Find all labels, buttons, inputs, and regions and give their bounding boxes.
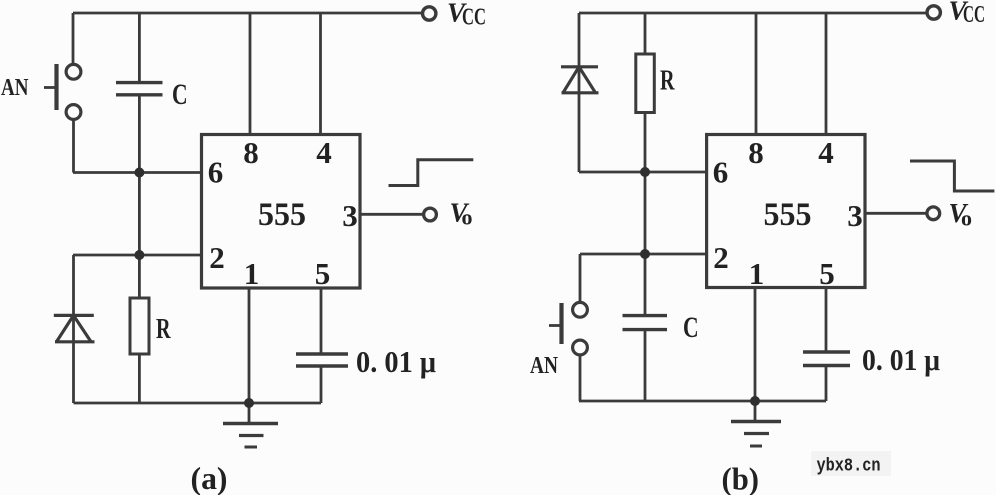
svg-text:(a): (a) [191,460,228,495]
svg-text:o: o [961,206,972,231]
svg-text:2: 2 [209,240,225,275]
svg-text:CC: CC [462,5,486,31]
svg-text:C: C [683,311,699,344]
svg-text:AN: AN [1,75,29,101]
svg-text:AN: AN [530,353,559,379]
svg-text:6: 6 [713,155,729,190]
svg-text:8: 8 [243,135,259,170]
svg-text:(b): (b) [722,461,760,495]
svg-text:555: 555 [258,197,306,233]
svg-text:6: 6 [208,155,224,190]
svg-text:5: 5 [819,256,835,291]
svg-text:R: R [156,314,171,345]
svg-text:555: 555 [764,197,812,233]
svg-text:o: o [462,205,473,230]
svg-text:R: R [660,65,675,96]
svg-text:3: 3 [847,198,863,233]
svg-text:1: 1 [244,256,260,291]
svg-text:2: 2 [713,240,729,275]
svg-text:8: 8 [748,135,764,170]
svg-text:0. 01 μ: 0. 01 μ [356,344,436,379]
svg-text:CC: CC [963,2,985,28]
svg-text:3: 3 [342,198,358,233]
svg-text:C: C [172,78,188,111]
svg-text:1: 1 [749,256,765,291]
svg-text:0. 01 μ: 0. 01 μ [862,342,940,377]
svg-text:4: 4 [316,135,332,170]
svg-text:5: 5 [315,256,331,291]
svg-text:ybx8.cn: ybx8.cn [817,457,881,477]
svg-text:4: 4 [818,135,834,170]
